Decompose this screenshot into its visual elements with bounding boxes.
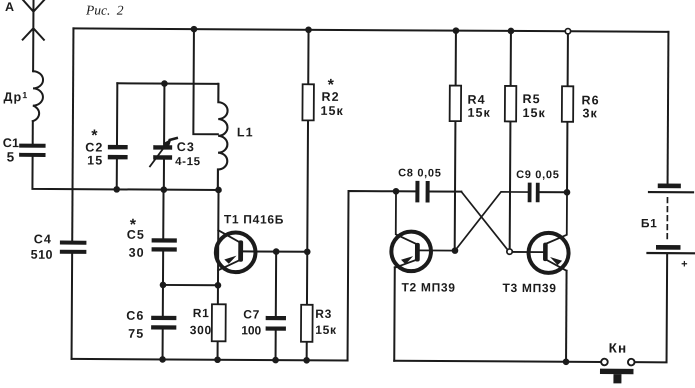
- wire T2 collector: [396, 191, 417, 244]
- node C8 left / T2 collector: [393, 188, 400, 195]
- capacitor C6: [153, 318, 174, 328]
- resistor R1: [212, 304, 226, 341]
- tank top wire: [117, 82, 218, 85]
- capacitor C8: [417, 183, 427, 201]
- node C9 right: [564, 189, 571, 196]
- svg-text:Кн: Кн: [609, 341, 628, 356]
- capacitor C7: [268, 318, 284, 329]
- wire C2 column: [116, 83, 119, 189]
- svg-text:+: +: [681, 258, 688, 270]
- svg-text:С2: С2: [85, 140, 103, 154]
- svg-text:С8 0,05: С8 0,05: [398, 167, 442, 179]
- svg-text:С1: С1: [3, 136, 19, 150]
- inductor Др1: [33, 71, 43, 121]
- transistor T2: [391, 231, 431, 271]
- wire cross diagonal B (C9 to T2 base): [455, 192, 528, 251]
- wire C7 column: [275, 252, 278, 360]
- transistor T1: [216, 232, 256, 272]
- svg-text:С7: С7: [243, 307, 260, 321]
- svg-text:R2: R2: [322, 90, 340, 104]
- svg-text:75: 75: [128, 327, 144, 341]
- svg-text:Т3 МП39: Т3 МП39: [502, 281, 556, 295]
- svg-text:15к: 15к: [522, 106, 546, 120]
- node R2-R3 junction: [304, 248, 311, 255]
- resistor R5: [505, 86, 517, 122]
- node C7 top: [273, 248, 280, 255]
- svg-text:С6: С6: [126, 309, 144, 323]
- svg-text:L1: L1: [237, 125, 254, 139]
- wire C5 column: [162, 190, 165, 360]
- svg-text:300: 300: [190, 323, 212, 337]
- battery Б1: [667, 32, 670, 184]
- node L1 bottom: [215, 187, 222, 194]
- bottom bus wire left segment: [72, 359, 348, 361]
- node R4 top bus: [453, 27, 460, 34]
- wire T1 base: [243, 250, 307, 252]
- svg-text:R3: R3: [315, 307, 332, 321]
- svg-text:R6: R6: [582, 93, 600, 107]
- wire link C5C6 to T1 emitter column: [163, 284, 218, 286]
- svg-text:Т2 МП39: Т2 МП39: [401, 280, 455, 294]
- svg-text:100: 100: [241, 323, 261, 337]
- left bus wire upper: [72, 28, 73, 240]
- capacitor C4: [62, 243, 85, 252]
- node C5-C6 junction: [160, 282, 167, 289]
- svg-text:Рис. 2: Рис. 2: [85, 2, 124, 17]
- node T3 emitter on bus: [563, 358, 570, 365]
- node T3 base (open): [507, 249, 512, 254]
- wire R6 column: [566, 34, 569, 192]
- svg-text:15: 15: [87, 154, 103, 168]
- svg-text:R5: R5: [523, 92, 541, 106]
- wire R2 column: [307, 30, 309, 360]
- node tap on top bus: [191, 26, 198, 33]
- svg-text:С3: С3: [177, 140, 195, 154]
- svg-text:R4: R4: [468, 93, 486, 107]
- node R6 top bus (open): [565, 29, 570, 34]
- capacitor C2: [110, 147, 125, 157]
- transistor T3: [528, 233, 568, 273]
- node R5 top bus: [508, 28, 515, 35]
- node C2 bottom: [113, 186, 120, 193]
- svg-text:3к: 3к: [582, 106, 598, 120]
- svg-text:С4: С4: [34, 232, 52, 246]
- capacitor C9: [530, 185, 538, 201]
- inductor L1: [218, 84, 228, 190]
- riser wire to multivibrator: [348, 191, 396, 361]
- capacitor C1: [21, 146, 43, 155]
- wire Кн to battery: [635, 255, 668, 363]
- bottom bus wire right segment: [394, 361, 601, 362]
- capacitor C5: [154, 240, 175, 249]
- node tank-top C3: [161, 80, 168, 87]
- svg-text:15к: 15к: [320, 104, 344, 118]
- switch Кн: [601, 359, 608, 366]
- svg-text:R1: R1: [193, 306, 210, 320]
- resistor R4: [450, 86, 462, 122]
- svg-text:Т1 П416Б: Т1 П416Б: [224, 212, 284, 226]
- svg-text:5: 5: [7, 150, 16, 165]
- svg-text:С9 0,05: С9 0,05: [516, 169, 560, 181]
- svg-text:Б1: Б1: [641, 216, 658, 230]
- wire cross diagonal A (C8 to T3 base): [461, 192, 508, 250]
- arrow of C3: [150, 141, 169, 167]
- wire T3 emitter down: [565, 271, 568, 362]
- resistor R3: [301, 305, 313, 342]
- top bus wire: [73, 28, 668, 31]
- wire R5 column: [510, 31, 511, 249]
- svg-text:4-15: 4-15: [175, 156, 200, 168]
- wire T1 emitter/collector column: [217, 190, 220, 360]
- left bus wire lower: [71, 254, 74, 359]
- node C3 bottom: [161, 186, 168, 193]
- wire antenna to C1: [32, 121, 34, 143]
- svg-text:30: 30: [129, 246, 145, 260]
- capacitor C3 (variable): [155, 147, 170, 157]
- node T1 column junction: [215, 282, 222, 289]
- wire R4 column: [455, 31, 456, 251]
- svg-text:510: 510: [31, 248, 53, 262]
- antenna W1: [22, 0, 44, 71]
- wire C3 column: [163, 84, 166, 190]
- node T2 base: [452, 247, 459, 254]
- wire R6 to T3 collector: [546, 192, 567, 244]
- svg-text:А: А: [5, 0, 15, 14]
- wire T2 emitter down: [393, 267, 396, 360]
- tap wire from top bus to L1: [193, 29, 218, 134]
- svg-text:15к: 15к: [467, 106, 491, 120]
- wire C1 down and right to tank bottom: [32, 157, 218, 190]
- resistor R2: [302, 84, 314, 120]
- resistor R6: [562, 86, 574, 122]
- node bus dots: [159, 356, 166, 363]
- svg-text:15к: 15к: [315, 323, 337, 337]
- node R2 top bus: [305, 26, 312, 33]
- svg-text:С5: С5: [127, 228, 145, 242]
